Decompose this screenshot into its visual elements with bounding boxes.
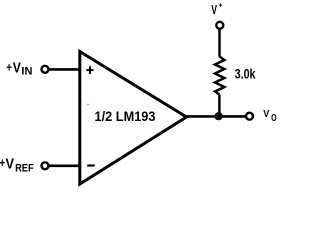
svg-text:+: + bbox=[219, 3, 223, 10]
label V+ bbox=[211, 2, 222, 17]
scan artifact dash bbox=[87, 104, 90, 105]
wire: op-amp output to VO terminal bbox=[186, 115, 246, 118]
op-amp U1 (1/2 LM193 comparator triangle) bbox=[80, 52, 187, 185]
svg-text:O: O bbox=[271, 113, 277, 124]
label +VIN bbox=[6, 59, 32, 77]
node: junction dot at output bbox=[215, 112, 223, 120]
node: +VREF input terminal circle bbox=[42, 162, 49, 169]
node: VO output terminal circle bbox=[246, 113, 253, 120]
svg-text:1/2 LM193: 1/2 LM193 bbox=[95, 109, 156, 125]
svg-text:V: V bbox=[13, 59, 21, 76]
svg-text:IN: IN bbox=[21, 66, 32, 78]
svg-text:+: + bbox=[6, 60, 12, 75]
label VO bbox=[263, 108, 276, 124]
node: V+ terminal circle bbox=[216, 22, 223, 29]
svg-text:REF: REF bbox=[15, 163, 34, 175]
wire: output node up to resistor R1 bottom bbox=[218, 95, 221, 117]
resistor R1 3.0k zigzag bbox=[215, 57, 224, 95]
svg-text:V: V bbox=[263, 108, 269, 120]
wire: +VIN terminal to op-amp + input bbox=[49, 68, 81, 71]
svg-text:V: V bbox=[211, 2, 217, 17]
wire: resistor R1 top to V+ terminal bbox=[218, 30, 221, 57]
node: +VIN input terminal circle bbox=[42, 66, 49, 73]
wire: +VREF terminal to op-amp - input bbox=[49, 165, 81, 168]
op-amp U1 non-inverting input marker + bbox=[86, 66, 93, 74]
svg-text:V: V bbox=[6, 156, 15, 173]
label +VREF bbox=[0, 155, 34, 175]
op-amp U1 inverting input marker - bbox=[87, 164, 95, 166]
svg-text:3.0k: 3.0k bbox=[235, 67, 256, 82]
